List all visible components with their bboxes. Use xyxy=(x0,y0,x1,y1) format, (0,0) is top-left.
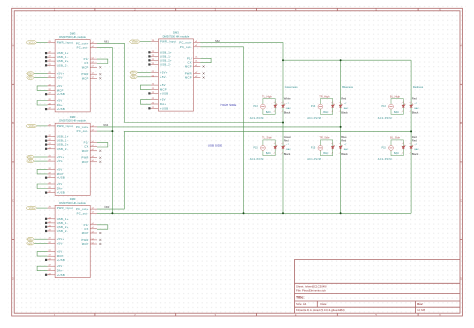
svg-text:+USB: +USB xyxy=(57,273,65,277)
svg-text:MCP: MCP xyxy=(82,149,89,153)
svg-text:KiCad E.D.A. kicad (5.0.0-3-g: KiCad E.D.A. kicad (5.0.0-3-g3ee4d8d) xyxy=(296,308,345,312)
svg-text:MCP: MCP xyxy=(82,65,89,69)
svg-text:VCD+: VCD+ xyxy=(29,207,36,210)
svg-text:DA+: DA+ xyxy=(57,186,63,190)
svg-text:USB_2+: USB_2+ xyxy=(57,143,69,147)
svg-text:Red: Red xyxy=(412,96,417,100)
svg-text:BAC: BAC xyxy=(344,107,349,110)
svg-text:AC1-P2/M: AC1-P2/M xyxy=(250,158,264,161)
svg-text:MCP: MCP xyxy=(57,254,64,258)
svg-text:B: B xyxy=(460,121,462,125)
svg-text:USB_1+: USB_1+ xyxy=(160,50,172,54)
svg-text:P1/: P1/ xyxy=(187,56,192,60)
svg-text:P1/: P1/ xyxy=(84,223,89,227)
svg-text:C: C xyxy=(460,199,462,203)
svg-text:Black: Black xyxy=(412,152,419,156)
svg-text:+5V: +5V xyxy=(57,99,63,103)
svg-text:DM3/7500 HK-module: DM3/7500 HK-module xyxy=(163,34,190,38)
svg-text:USB_2-: USB_2- xyxy=(160,63,171,67)
svg-text:BL_Side: BL_Side xyxy=(390,136,400,140)
svg-text:Date:: Date: xyxy=(320,302,327,306)
svg-text:+5V+: +5V+ xyxy=(27,73,33,76)
svg-text:Black: Black xyxy=(412,111,419,115)
svg-text:BAC: BAC xyxy=(394,111,399,114)
svg-text:PC_out-: PC_out- xyxy=(77,129,89,133)
svg-text:Id: 6/8: Id: 6/8 xyxy=(417,308,425,312)
svg-text:Red: Red xyxy=(341,96,346,100)
svg-text:Red: Red xyxy=(341,138,346,142)
svg-text:MCP: MCP xyxy=(57,89,64,93)
svg-text:Blueness: Blueness xyxy=(342,85,353,89)
svg-text:P13: P13 xyxy=(253,105,258,108)
svg-text:DM3: DM3 xyxy=(173,31,179,35)
svg-text:MCP: MCP xyxy=(82,76,89,80)
svg-text:AC1-P2/M: AC1-P2/M xyxy=(378,117,392,120)
svg-text:PWR_Input: PWR_Input xyxy=(57,124,73,128)
svg-text:DA+: DA+ xyxy=(57,269,63,273)
svg-text:+5V: +5V xyxy=(57,250,63,254)
svg-text:BAC: BAC xyxy=(414,107,419,110)
svg-text:VBat+: VBat+ xyxy=(132,41,139,44)
svg-text:PWR_Input: PWR_Input xyxy=(160,40,176,44)
svg-text:+USB: +USB xyxy=(57,258,65,262)
svg-text:TL_High: TL_High xyxy=(262,94,272,98)
svg-text:A: A xyxy=(460,44,462,48)
svg-text:+5V-: +5V- xyxy=(28,77,33,80)
svg-text:BAC: BAC xyxy=(414,148,419,151)
svg-text:N61: N61 xyxy=(104,40,109,44)
svg-text:+USB: +USB xyxy=(57,92,65,96)
svg-text:PWR_Input: PWR_Input xyxy=(57,206,73,210)
svg-text:C: C xyxy=(12,199,14,203)
svg-text:PC_out+: PC_out+ xyxy=(76,207,89,211)
svg-text:USB_2+: USB_2+ xyxy=(160,58,172,62)
svg-text:Red: Red xyxy=(412,138,417,142)
svg-text:+5V+: +5V+ xyxy=(57,237,65,241)
svg-text:AC1-P2/M: AC1-P2/M xyxy=(307,117,321,120)
svg-text:P1/: P1/ xyxy=(84,57,89,61)
svg-text:MCP: MCP xyxy=(82,242,89,246)
svg-text:A: A xyxy=(12,44,14,48)
svg-text:PC_out-: PC_out- xyxy=(180,45,192,49)
svg-text:PC_out+: PC_out+ xyxy=(76,125,89,129)
svg-text:+5V: +5V xyxy=(57,167,63,171)
svg-text:Black: Black xyxy=(341,111,348,115)
svg-text:White: White xyxy=(284,96,291,100)
svg-text:DA+: DA+ xyxy=(160,102,166,106)
svg-text:N62: N62 xyxy=(215,39,220,43)
svg-text:Black: Black xyxy=(284,111,291,115)
svg-text:BL_High: BL_High xyxy=(390,94,401,98)
svg-text:MCP: MCP xyxy=(185,76,192,80)
svg-text:Black: Black xyxy=(284,152,291,156)
svg-text:P1/: P1/ xyxy=(84,141,89,145)
svg-text:+5V: +5V xyxy=(160,83,166,87)
svg-text:BAC: BAC xyxy=(323,111,328,114)
svg-text:MCP: MCP xyxy=(160,88,167,92)
svg-text:+5V-: +5V- xyxy=(57,76,64,80)
svg-text:DA+: DA+ xyxy=(57,103,63,107)
svg-text:DM3/7500 HK-module: DM3/7500 HK-module xyxy=(59,119,86,123)
svg-text:AC1-P2/M: AC1-P2/M xyxy=(250,117,264,120)
svg-text:+5V-: +5V- xyxy=(28,242,33,245)
svg-text:+5V+: +5V+ xyxy=(160,71,168,75)
svg-text:D: D xyxy=(460,276,462,280)
svg-text:+5V+: +5V+ xyxy=(27,238,33,241)
svg-text:PC_out-: PC_out- xyxy=(77,46,89,50)
svg-text:PWR_Input: PWR_Input xyxy=(57,40,73,44)
svg-text:+USB: +USB xyxy=(57,191,65,195)
svg-text:USB_1-: USB_1- xyxy=(57,55,68,59)
svg-text:USB_1-: USB_1- xyxy=(160,54,171,58)
svg-text:File: PiezoElements.sch: File: PiezoElements.sch xyxy=(296,289,326,293)
svg-text:DM3: DM3 xyxy=(70,197,76,201)
svg-text:MCP: MCP xyxy=(185,65,192,69)
svg-text:PWR: PWR xyxy=(81,72,88,76)
svg-text:USB SIDE: USB SIDE xyxy=(208,143,222,147)
svg-text:BAC: BAC xyxy=(323,152,328,155)
svg-text:BAC: BAC xyxy=(286,148,291,151)
svg-text:+USB: +USB xyxy=(57,176,65,180)
svg-text:PWR: PWR xyxy=(81,238,88,242)
svg-text:USB_1-: USB_1- xyxy=(57,139,68,143)
svg-text:CX: CX xyxy=(84,61,88,65)
svg-text:P13: P13 xyxy=(382,105,387,108)
svg-text:PC_out-: PC_out- xyxy=(77,211,89,215)
svg-text:P15: P15 xyxy=(253,147,258,150)
svg-text:CX: CX xyxy=(84,145,88,149)
svg-text:+5V+: +5V+ xyxy=(27,156,33,159)
svg-text:USB_2+: USB_2+ xyxy=(57,225,69,229)
svg-text:N64: N64 xyxy=(103,123,108,127)
svg-text:+5V+: +5V+ xyxy=(57,72,65,76)
svg-text:BAC: BAC xyxy=(344,148,349,151)
svg-text:PWR: PWR xyxy=(81,156,88,160)
svg-text:USB_2-: USB_2- xyxy=(57,147,68,151)
svg-text:+5V+: +5V+ xyxy=(130,72,136,75)
svg-text:USB_2-: USB_2- xyxy=(57,229,68,233)
svg-text:PC_out+: PC_out+ xyxy=(76,41,89,45)
svg-text:HIGH SIDE: HIGH SIDE xyxy=(221,103,237,107)
svg-text:+5V-: +5V- xyxy=(160,75,167,79)
svg-text:MCP: MCP xyxy=(82,231,89,235)
svg-text:BAC: BAC xyxy=(286,107,291,110)
svg-text:Green: Green xyxy=(284,135,292,139)
svg-text:VCC+: VCC+ xyxy=(29,41,36,44)
svg-text:Rev:: Rev: xyxy=(417,302,423,306)
svg-text:Black: Black xyxy=(341,152,348,156)
svg-text:USB_2+: USB_2+ xyxy=(57,59,69,63)
svg-text:MCP: MCP xyxy=(57,172,64,176)
svg-text:AC1-P2/M: AC1-P2/M xyxy=(378,158,392,161)
svg-text:BAC: BAC xyxy=(266,152,271,155)
svg-text:+USB: +USB xyxy=(160,106,168,110)
svg-text:CX: CX xyxy=(188,60,192,64)
svg-text:USB_1+: USB_1+ xyxy=(57,135,69,139)
svg-text:Size: A4: Size: A4 xyxy=(296,302,307,306)
svg-text:AC1-P2/M: AC1-P2/M xyxy=(307,158,321,161)
svg-text:Red: Red xyxy=(284,138,289,142)
svg-text:Red: Red xyxy=(412,135,417,139)
svg-text:BAC: BAC xyxy=(266,111,271,114)
svg-text:USB_1+: USB_1+ xyxy=(57,217,69,221)
svg-text:+5V-: +5V- xyxy=(28,160,33,163)
svg-text:PC_out+: PC_out+ xyxy=(179,41,192,45)
svg-text:+5V-: +5V- xyxy=(57,241,64,245)
svg-text:TR_Side: TR_Side xyxy=(319,136,330,140)
svg-text:VCD+: VCD+ xyxy=(29,125,36,128)
svg-text:+5V: +5V xyxy=(57,264,63,268)
svg-text:TR_High: TR_High xyxy=(319,94,330,98)
svg-text:+5V-: +5V- xyxy=(57,159,64,163)
svg-text:PWR: PWR xyxy=(185,71,192,75)
svg-text:P13: P13 xyxy=(311,105,316,108)
svg-text:Blue: Blue xyxy=(341,135,347,139)
svg-text:TL_Side: TL_Side xyxy=(262,136,272,140)
svg-text:Redness: Redness xyxy=(413,85,424,89)
svg-text:+USB: +USB xyxy=(160,91,168,95)
svg-text:USB_1+: USB_1+ xyxy=(57,51,69,55)
svg-text:Greenness: Greenness xyxy=(285,85,298,89)
svg-text:+USB: +USB xyxy=(57,107,65,111)
svg-text:P15: P15 xyxy=(311,147,316,150)
svg-text:DM3/7500 HK-module: DM3/7500 HK-module xyxy=(59,201,86,205)
svg-text:CX: CX xyxy=(84,227,88,231)
svg-text:+5V: +5V xyxy=(57,84,63,88)
svg-text:BAC: BAC xyxy=(394,152,399,155)
svg-text:DM3: DM3 xyxy=(70,31,76,35)
svg-text:D: D xyxy=(12,276,14,280)
svg-text:P15: P15 xyxy=(382,147,387,150)
svg-text:+5V+: +5V+ xyxy=(57,155,65,159)
svg-text:MCP: MCP xyxy=(82,160,89,164)
svg-text:DM3: DM3 xyxy=(70,115,76,119)
svg-text:+5V-: +5V- xyxy=(131,76,136,79)
svg-text:N63: N63 xyxy=(105,205,110,209)
svg-text:USB_1-: USB_1- xyxy=(57,221,68,225)
svg-text:B: B xyxy=(12,121,14,125)
svg-text:Title:: Title: xyxy=(296,296,305,300)
svg-text:+5V: +5V xyxy=(57,182,63,186)
svg-text:+5V: +5V xyxy=(160,98,166,102)
svg-text:DM3/7500 HK-module: DM3/7500 HK-module xyxy=(59,35,86,39)
svg-text:USB_2-: USB_2- xyxy=(57,63,68,67)
